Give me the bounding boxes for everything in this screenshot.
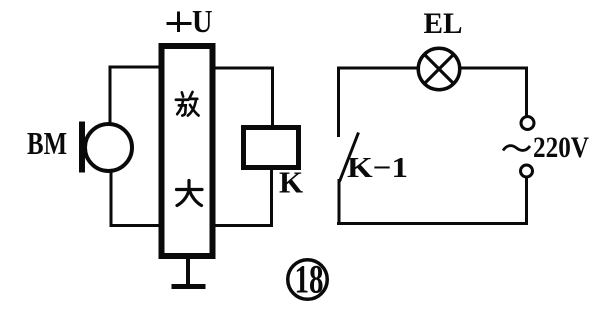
wire switch upper vertical xyxy=(337,67,340,138)
wire right-circuit bottom horizontal xyxy=(337,222,528,225)
svg-text:K: K xyxy=(279,165,303,200)
label 放 (amplify char 1, drawn strokes) xyxy=(176,92,199,116)
wire amplifier right top horizontal xyxy=(213,67,274,70)
wire right vertical lower xyxy=(525,178,528,225)
figure number 18 circle xyxy=(288,260,328,300)
lamp EL circle xyxy=(418,48,460,90)
relay coil K xyxy=(244,128,299,168)
wire right-circuit top horizontal xyxy=(339,67,527,70)
wire right vertical upper xyxy=(525,67,528,118)
wire relay bottom vertical xyxy=(270,168,273,226)
ground xyxy=(186,258,190,285)
microphone BM circle xyxy=(85,124,132,171)
svg-text:BM: BM xyxy=(27,125,67,161)
wire bottom-left horizontal from BM to amplifier xyxy=(110,224,162,227)
svg-text:220V: 220V xyxy=(533,131,589,164)
wire BM top vertical xyxy=(109,66,112,125)
wire amplifier right bottom horizontal xyxy=(213,224,273,227)
svg-text:K−1: K−1 xyxy=(347,152,408,184)
wire top-left horizontal from BM to amplifier xyxy=(109,66,162,69)
switch K-1 blade xyxy=(340,133,359,182)
label 大 (amplify char 2, drawn strokes) xyxy=(177,181,203,206)
microphone BM membrane bar xyxy=(79,122,85,173)
svg-text:EL: EL xyxy=(424,7,463,40)
wire BM bottom vertical xyxy=(110,171,113,227)
wire switch lower vertical xyxy=(338,179,341,225)
label ~220V tilde xyxy=(503,146,530,151)
wire relay top vertical xyxy=(271,67,274,127)
lamp EL cross xyxy=(425,55,454,84)
svg-text:18: 18 xyxy=(295,257,324,302)
svg-text:U: U xyxy=(192,3,213,39)
amplifier block U1 xyxy=(162,46,213,256)
label +U plus sign xyxy=(167,12,192,33)
terminal bottom circle xyxy=(521,165,533,177)
terminal top circle xyxy=(521,117,534,130)
